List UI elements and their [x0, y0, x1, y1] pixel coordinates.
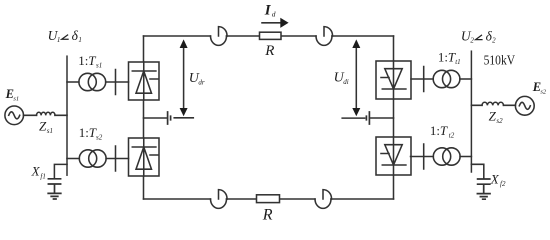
filter branch Xf1 wire	[54, 164, 67, 177]
converter valve box V2 (left bottom, rectifier)	[129, 138, 160, 176]
svg-text:R: R	[264, 43, 274, 59]
capacitor Xf1	[48, 179, 60, 193]
resistor R top	[260, 32, 282, 39]
wire bus to transformer Ts2	[67, 158, 79, 160]
label Udi	[334, 70, 349, 86]
inductor Zs2	[482, 102, 504, 105]
svg-text:s1: s1	[47, 127, 53, 135]
wire Tt1 to bus	[460, 78, 472, 80]
filter branch Xf2 wire	[471, 164, 483, 177]
svg-text:2: 2	[470, 37, 474, 45]
wire Es1 to bus with inductor Zs1	[24, 114, 68, 116]
svg-text:1:: 1:	[438, 49, 448, 64]
svg-text:s1: s1	[96, 61, 102, 69]
svg-text:Z: Z	[39, 119, 47, 134]
voltage arrow Udi (right, double-headed)	[352, 39, 360, 116]
svg-text:2: 2	[492, 37, 496, 45]
wire left midpoint branch	[144, 117, 167, 119]
resistor R bottom	[257, 195, 280, 203]
node right neutral reference line	[342, 117, 364, 119]
wire right midpoint branch	[371, 117, 394, 119]
current arrow Id	[262, 18, 289, 28]
label Id	[264, 2, 276, 18]
svg-text:Z: Z	[489, 108, 497, 123]
label 1:Ts1	[78, 53, 102, 70]
label Xf2	[490, 171, 506, 188]
label Es2	[532, 80, 547, 96]
svg-text:I: I	[264, 2, 272, 18]
svg-text:1:: 1:	[78, 53, 88, 68]
svg-text:s2: s2	[96, 133, 103, 141]
svg-text:f1: f1	[40, 173, 45, 181]
label Zs2	[489, 108, 504, 125]
reactor L3 bottom-left loop	[211, 190, 228, 209]
converter valve box V4 (right bottom, inverter)	[376, 137, 411, 175]
reactor L4 bottom-right loop	[315, 190, 332, 209]
capacitor Xf2	[478, 179, 490, 193]
svg-text:f2: f2	[500, 180, 506, 188]
ground left	[48, 193, 61, 199]
wire bottom DC line	[144, 198, 394, 200]
wire left DC riser	[143, 36, 145, 199]
svg-text:1:: 1:	[430, 123, 440, 138]
transformer Ts1	[79, 73, 106, 90]
transformer Tt2	[433, 148, 460, 165]
svg-text:1: 1	[57, 36, 61, 44]
wire top DC line	[144, 35, 394, 37]
svg-text:s2: s2	[540, 89, 547, 96]
transformer Ts2	[79, 150, 106, 167]
converter valve box V3 (right top, inverter)	[376, 61, 411, 99]
label Es1	[5, 87, 20, 103]
svg-text:510kV: 510kV	[484, 52, 516, 67]
label U2 angle delta2	[461, 28, 496, 44]
svg-text:s1: s1	[13, 95, 19, 102]
svg-text:1:: 1:	[79, 125, 89, 140]
bus bar 1 (left AC bus)	[66, 56, 68, 175]
svg-text:t1: t1	[455, 58, 460, 66]
neutral ground tick right	[366, 112, 369, 124]
wire bus to Es2 with inductor Zs2	[471, 104, 515, 106]
wire bus to transformer Ts1	[67, 81, 79, 83]
svg-text:d: d	[272, 9, 276, 18]
label 1:Tt1	[438, 49, 461, 66]
svg-text:R: R	[262, 206, 273, 223]
bus bar 2 (right AC bus)	[470, 51, 472, 172]
svg-text:dr: dr	[198, 79, 205, 87]
wire right DC riser	[393, 36, 395, 199]
label Udr	[189, 71, 205, 87]
ground right	[477, 194, 490, 200]
neutral ground tick left	[168, 112, 171, 124]
wire Ts2 to valve V2 with tick	[106, 146, 128, 171]
wire Ts1 to valve V1 with tick	[106, 70, 129, 95]
AC source Es2	[515, 96, 534, 115]
wire valve V3 to transformer Tt1 with tick	[411, 67, 433, 92]
inductor Zs1	[37, 112, 56, 115]
wire Tt2 to bus	[460, 156, 471, 158]
label 1:Tt2	[430, 123, 455, 139]
reactor L1 top-left loop	[211, 27, 228, 46]
converter valve box V1 (left top, rectifier)	[129, 62, 160, 100]
wire valve V4 to transformer Tt2 with tick	[411, 144, 434, 169]
svg-text:t2: t2	[449, 131, 455, 139]
svg-text:1: 1	[78, 36, 82, 44]
svg-text:X: X	[31, 164, 41, 179]
AC source Es1	[5, 106, 24, 125]
label Xf1	[31, 164, 46, 181]
transformer Tt1	[433, 70, 460, 87]
svg-text:di: di	[343, 78, 349, 86]
label Zs1	[39, 119, 53, 136]
node left neutral reference line	[174, 117, 193, 119]
svg-text:s2: s2	[496, 117, 503, 125]
reactor L2 top-right loop	[316, 27, 333, 46]
svg-text:X: X	[490, 171, 500, 186]
label 1:Ts2	[79, 125, 103, 141]
voltage arrow Udr (left, double-headed)	[180, 39, 188, 116]
svg-text:T: T	[440, 123, 448, 138]
label U1 angle delta1	[48, 28, 82, 44]
